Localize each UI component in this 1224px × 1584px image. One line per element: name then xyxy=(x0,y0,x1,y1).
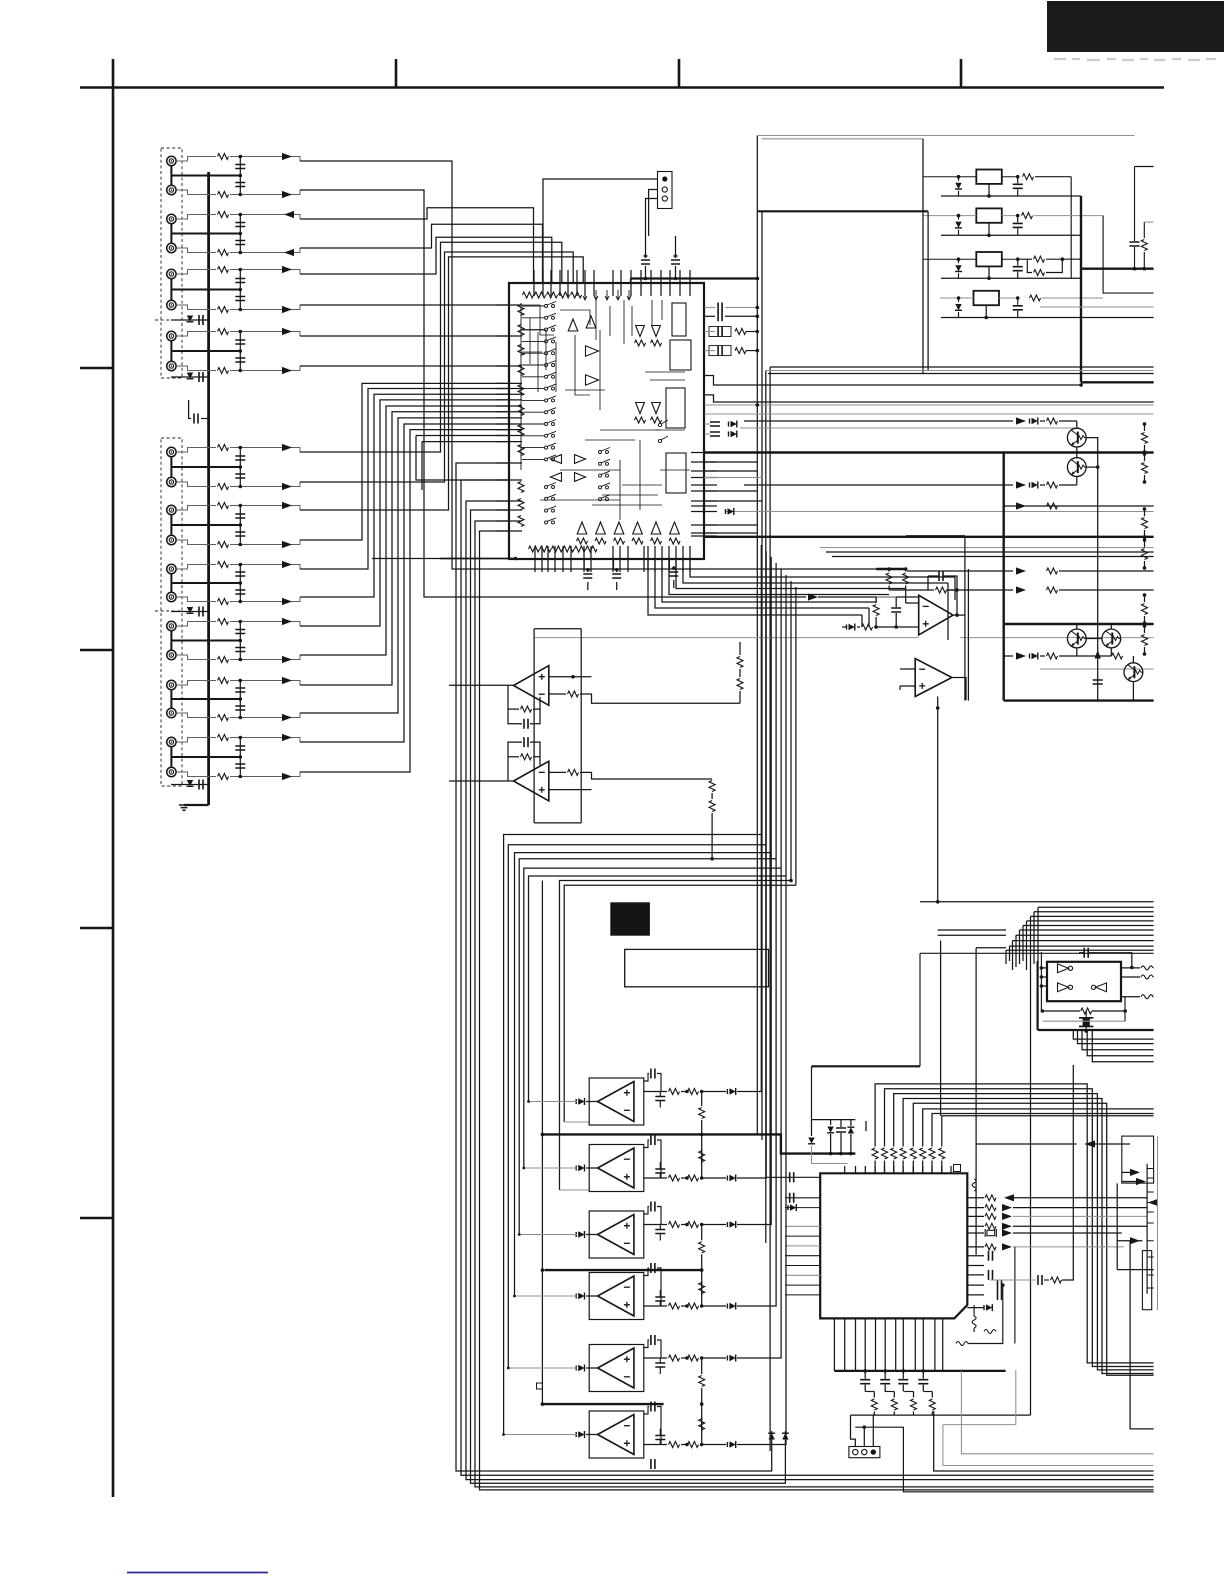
opamp U11 enclosure xyxy=(589,1345,644,1392)
wire xyxy=(543,1134,856,1153)
wire xyxy=(549,693,566,695)
RCA jack J15 xyxy=(167,621,176,630)
U6 right pin 4 xyxy=(967,1225,984,1227)
bus wire V3-1 xyxy=(756,136,758,1135)
capacitor C102 xyxy=(235,183,245,187)
wire U5 out 2 xyxy=(1121,976,1140,978)
transistor Q5 xyxy=(1124,663,1143,682)
loop row 8 xyxy=(564,885,796,1122)
U1 internal buffer amp 4 xyxy=(586,375,599,385)
U1 left pin 7 xyxy=(496,399,522,401)
wire xyxy=(1144,561,1146,568)
capacitor C118 xyxy=(235,706,245,710)
resistor R22 xyxy=(1047,482,1058,488)
U6 top pin 10 xyxy=(931,1166,933,1174)
row y637 right xyxy=(960,637,1154,639)
squiggle h1 xyxy=(984,1330,996,1334)
wire xyxy=(744,420,1013,422)
cap C93 xyxy=(651,1202,655,1212)
wire xyxy=(704,500,762,502)
wire ec3 xyxy=(668,559,670,568)
wire r b xyxy=(913,1412,915,1416)
cap C102 xyxy=(655,1436,665,1440)
wire U8 out to bus xyxy=(737,845,766,1178)
wire xyxy=(704,490,757,492)
resistor R91b xyxy=(688,1089,699,1095)
wire rv a xyxy=(701,1225,703,1241)
wire rv b xyxy=(701,1254,703,1270)
wire row14 to U1 left pin xyxy=(300,394,509,597)
resistor R23 xyxy=(1047,503,1058,509)
stub xyxy=(983,1197,985,1199)
wire xyxy=(1070,177,1072,279)
wire xyxy=(830,1134,832,1154)
regulator U12 xyxy=(976,208,1002,222)
RCA jack J18 xyxy=(167,708,176,717)
wire R13a in xyxy=(1018,258,1032,260)
wire feed U7 xyxy=(529,1101,578,1103)
U1 internal volume ladder box B xyxy=(670,340,691,370)
wire bus to ground xyxy=(184,804,209,806)
wire Q4 e xyxy=(1110,648,1112,656)
resistor R61 under U5 xyxy=(1081,1008,1092,1014)
left ruler tick A xyxy=(80,367,113,369)
wire xyxy=(811,1120,813,1136)
U1 top pin 5 xyxy=(567,270,569,296)
wire xyxy=(900,668,915,670)
wire U2B plus xyxy=(549,789,592,791)
U5 inverter 1 xyxy=(1058,964,1069,973)
wire R72 route xyxy=(885,1089,1154,1367)
wire xyxy=(1012,941,1014,970)
wire reg gnd xyxy=(985,305,987,317)
wire diode a xyxy=(958,177,960,181)
wire xyxy=(1144,530,1146,537)
resistor R118 xyxy=(218,715,229,721)
wire pin c2a xyxy=(705,423,711,425)
wire xyxy=(644,1444,667,1446)
capacitor C117 xyxy=(235,688,245,692)
wire row17 to U1 left pin xyxy=(300,412,509,685)
arrow U6 row 5 xyxy=(1002,1243,1012,1250)
wire fb a3 xyxy=(533,697,540,709)
wire xyxy=(739,669,741,677)
bus wire V3-2 xyxy=(761,211,763,1140)
wire diode b xyxy=(958,312,960,318)
wire fb a4 xyxy=(530,709,540,724)
wire feed 928 xyxy=(927,211,929,370)
U6 left pin 9 xyxy=(785,1274,820,1276)
diode D93 xyxy=(578,1231,584,1237)
U6 right pin 8 xyxy=(967,1265,984,1267)
U6 top pin 2 xyxy=(855,1166,857,1174)
coupling cap branch 6 xyxy=(239,506,241,545)
resistor R109 xyxy=(218,445,229,451)
op-amp selector IC U1 (outline) xyxy=(509,283,704,559)
U6 right cap c4 xyxy=(998,1290,1002,1300)
wire row7 to U1 left pin xyxy=(300,335,509,337)
wire C94 b xyxy=(657,1268,661,1306)
wire xyxy=(541,881,543,1405)
wire U1 bottom row 5 xyxy=(662,559,876,602)
resistor R92a xyxy=(669,1175,680,1181)
capacitor C112 xyxy=(880,1380,890,1384)
wire cap b xyxy=(902,1385,904,1392)
wire R13 loop a xyxy=(1046,259,1062,272)
wire Q1 c xyxy=(1076,421,1078,428)
wire R13 out xyxy=(1062,258,1081,260)
opamp U10 enclosure xyxy=(589,1273,644,1320)
wire xyxy=(820,547,1154,549)
wire r b xyxy=(893,1412,895,1416)
wire U5 out 3 xyxy=(1121,996,1140,998)
wire reg gnd xyxy=(988,184,990,196)
opamp U12 enclosure xyxy=(589,1411,644,1458)
bus clamp diode D202 xyxy=(187,373,193,379)
wire xyxy=(905,586,907,604)
wire D92 to U8 xyxy=(586,1167,598,1169)
U6 right pin 11 xyxy=(967,1294,984,1296)
U1 left pin 12 xyxy=(496,429,522,431)
control bus row 2 xyxy=(1038,906,1154,908)
wire C62 a xyxy=(1085,1011,1087,1018)
wire jack J11 to resistor xyxy=(176,506,216,511)
resistor R36 xyxy=(1142,635,1148,646)
wire xyxy=(1004,623,1154,625)
wire xyxy=(895,597,897,607)
regulator U11 xyxy=(976,170,1002,184)
U1 right pin 4 xyxy=(691,477,717,479)
diode D99 xyxy=(729,1221,735,1227)
coupling cap branch 3 xyxy=(239,270,241,310)
ground bus (thick vertical) xyxy=(207,172,210,805)
U6 orientation notch xyxy=(954,1165,961,1172)
wire cap stub2 xyxy=(659,1290,661,1297)
U1 internal volume ladder box D xyxy=(666,453,686,493)
wire to loop row xyxy=(711,813,713,859)
U1 right pin 6 xyxy=(691,490,717,492)
wire xyxy=(1014,1247,1016,1344)
wire ec1 xyxy=(583,559,585,570)
wire rail xyxy=(941,277,1081,279)
U1 left pin 15 xyxy=(496,462,522,464)
wire xyxy=(1043,1020,1125,1022)
wire row9 to U1 pin xyxy=(300,242,562,452)
wire xyxy=(1124,997,1126,1022)
wire xyxy=(1044,1279,1049,1281)
wire stub xyxy=(739,642,741,648)
wire cap a xyxy=(922,1371,924,1379)
wire resistor R101 to row xyxy=(230,157,300,162)
wire U1 bottom row 6 xyxy=(655,559,869,608)
U6 top pin 1 xyxy=(844,1166,846,1174)
wire Q3 e xyxy=(1076,648,1078,656)
jack pair ground link 8 xyxy=(170,631,172,650)
U6 right pin 12 xyxy=(967,1307,984,1309)
pin diode D2b xyxy=(731,431,737,437)
loop vertical 6 xyxy=(785,575,787,876)
wire xyxy=(644,1177,667,1179)
label frame rectangle xyxy=(625,949,769,986)
U1 pin caps C1b xyxy=(718,311,722,321)
ground link to bus 7 xyxy=(171,582,240,584)
wire U11 out to bus xyxy=(737,868,781,1358)
regulator U14 xyxy=(974,291,1000,305)
wire clamp to bus xyxy=(171,611,209,613)
U6 left pin 6 xyxy=(785,1245,820,1247)
U6 right resistor r3 xyxy=(985,1213,996,1219)
U1 bottom pin 17 xyxy=(675,546,677,572)
U1 pin caps C1a xyxy=(718,303,722,313)
diode D213 xyxy=(955,265,961,271)
wire jack J3 to resistor xyxy=(176,215,216,220)
resistor R34 xyxy=(1142,549,1148,560)
wire Q2 e xyxy=(1076,477,1078,486)
wire xyxy=(534,637,919,639)
wire jack J5 to resistor xyxy=(176,270,216,275)
capacitor C119 xyxy=(235,746,245,750)
RCA jack J5 xyxy=(167,269,176,278)
wire r a xyxy=(913,1392,915,1398)
wire xyxy=(840,1120,842,1127)
wire r a xyxy=(931,1392,933,1398)
opamp U9 xyxy=(598,1215,634,1255)
wire row3 2 xyxy=(1078,1030,1154,1044)
resistor R111 xyxy=(218,503,229,509)
cluster tick xyxy=(865,1121,867,1131)
wire xyxy=(1152,967,1155,969)
resistor R14 xyxy=(1030,295,1041,301)
RCA jack J20 xyxy=(167,767,176,776)
wire xyxy=(920,901,1154,903)
signal arrow row 13 xyxy=(282,561,292,568)
wire xyxy=(1116,1183,1118,1269)
row y373.5 left xyxy=(768,373,923,375)
U6 right pin 7 xyxy=(967,1255,984,1257)
wire xyxy=(851,1414,1031,1416)
wire C91 a xyxy=(644,1074,649,1082)
wire C62 b xyxy=(1085,1026,1087,1031)
resistor R54 xyxy=(568,769,579,775)
resistor R53 xyxy=(568,691,579,697)
diode D23 xyxy=(728,508,734,514)
opamp U9 enclosure xyxy=(589,1211,644,1258)
cap C96b below U12 xyxy=(651,1459,655,1469)
wire rail drop left xyxy=(833,1318,835,1371)
wire Q2 out xyxy=(1086,466,1098,468)
wire resistor R116 to row xyxy=(230,655,300,660)
wire row3 3 xyxy=(1082,1030,1154,1050)
U6 right pin 9 xyxy=(967,1274,984,1276)
diode D22 xyxy=(1032,482,1038,488)
U6 top pin 12 xyxy=(950,1166,952,1174)
resistor R108 xyxy=(699,1419,705,1430)
electrolytic cap C62 xyxy=(1079,1018,1093,1027)
arrow into x976 xyxy=(1085,1140,1095,1147)
U1 left pin 13 xyxy=(496,435,522,437)
capacitor C103 xyxy=(235,223,245,227)
left pin caps C81 xyxy=(790,1172,794,1182)
wire row2 to opamp U4 xyxy=(300,190,806,597)
wire xyxy=(826,551,1154,553)
opamp U11 xyxy=(598,1348,634,1388)
control bus row 8 xyxy=(1016,934,1154,936)
bus wire V3-3 xyxy=(765,371,767,1244)
wire CN1 pin1 to U1 xyxy=(543,179,658,283)
ground link to bus 3 xyxy=(171,289,240,291)
loop vertical 8 xyxy=(795,587,797,885)
wire xyxy=(1059,589,1154,591)
resistor R93b xyxy=(688,1222,699,1228)
wire jack J20 to resistor xyxy=(176,772,216,777)
wire xyxy=(1038,1029,1154,1031)
wire R76 route xyxy=(923,1109,1154,1147)
U6 right diode d1 xyxy=(986,1304,992,1310)
wire resistor R104 to row xyxy=(230,248,300,253)
black reference mark xyxy=(610,902,650,935)
wire jack J6 to resistor xyxy=(176,305,216,310)
wire xyxy=(875,597,877,602)
wire Q5 e xyxy=(1132,682,1134,701)
U1 top pin 7 xyxy=(584,270,586,296)
wire rv a xyxy=(701,1281,703,1306)
wire xyxy=(681,1444,686,1446)
cap C94 xyxy=(651,1263,655,1273)
wire xyxy=(704,451,1154,453)
wire cap a xyxy=(884,1371,886,1379)
wire arrow feed2 xyxy=(976,1143,1076,1145)
signal arrow row 19 xyxy=(282,734,292,741)
resistor R112 xyxy=(218,542,229,548)
wire xyxy=(1022,926,1024,962)
wire jack J12 to resistor xyxy=(176,540,216,545)
wire R73 route xyxy=(894,1094,1154,1370)
bus cap C202 xyxy=(199,372,203,382)
wire xyxy=(533,629,535,823)
resistor R32 xyxy=(1142,463,1148,474)
wire xyxy=(1040,484,1045,486)
wire xyxy=(907,570,1013,572)
arrow into comb xyxy=(1130,1237,1140,1244)
signal arrow row 1 xyxy=(282,153,292,160)
U1 bottom pin 19 xyxy=(689,546,691,572)
arrow drive 2 xyxy=(1016,481,1026,488)
wire xyxy=(1019,930,1021,964)
U1 top pin 12 xyxy=(640,270,642,296)
U1 bottom pin 12 xyxy=(643,546,645,572)
capacitor C120 xyxy=(235,764,245,768)
wire cap stub xyxy=(659,1225,661,1230)
wire xyxy=(946,589,1013,591)
RCA jack J1 xyxy=(167,156,176,165)
wire xyxy=(580,629,582,823)
coupling cap branch 2 xyxy=(239,215,241,253)
wire R12 out xyxy=(1034,215,1103,217)
cap C101 xyxy=(655,1363,665,1367)
stub xyxy=(1102,292,1104,294)
wire U9 out to bus xyxy=(737,853,771,1225)
resistor R114 xyxy=(218,599,229,605)
wire jack J16 to resistor xyxy=(176,655,216,660)
capacitor C113 xyxy=(235,572,245,576)
wire stub a xyxy=(416,436,509,481)
wire xyxy=(938,929,1006,931)
U6 right pin 10 xyxy=(967,1284,984,1286)
wire Ca b xyxy=(1134,247,1136,269)
wire clamp to bus xyxy=(171,319,209,321)
transistor Q3 xyxy=(1067,629,1086,648)
wire resistor R118 to row xyxy=(230,713,300,718)
diode D212 xyxy=(955,222,961,228)
wire xyxy=(868,608,870,627)
jack pair ground link 4 xyxy=(170,341,172,361)
jack pair ground link 1 xyxy=(170,166,172,185)
resistor R56b xyxy=(709,801,715,812)
wire xyxy=(812,1119,856,1121)
wire diode a xyxy=(958,216,960,220)
stub xyxy=(899,686,901,690)
wire row8 to U1 left pin xyxy=(300,365,509,367)
wire cap stub2 xyxy=(659,1162,661,1169)
resistor R105 xyxy=(218,267,229,273)
cap C99 xyxy=(655,1230,665,1234)
wire filter row 1b xyxy=(746,331,757,333)
wire resistor R114 to row xyxy=(230,597,300,602)
wire to Q4 xyxy=(1059,655,1111,657)
RCA jack J7 xyxy=(167,331,176,340)
resistor R108 xyxy=(218,368,229,374)
wire R76 to U6 xyxy=(922,1161,924,1174)
bus clamp diode D203 xyxy=(187,607,193,613)
wire resistor R108 to row xyxy=(230,366,300,371)
diode D201b xyxy=(782,1433,788,1439)
wire CN1 pin3 xyxy=(646,199,658,237)
top ruler tick 1 xyxy=(395,59,398,88)
resistor R101 xyxy=(218,154,229,160)
loop vertical 3 xyxy=(770,557,772,853)
wire cap a xyxy=(1017,177,1019,184)
U1 top pin 17 xyxy=(689,270,691,296)
wire xyxy=(644,1357,667,1359)
wire xyxy=(900,685,915,687)
U6 right resistor r4 xyxy=(985,1223,996,1229)
U6 left pin 11 xyxy=(785,1294,820,1296)
resistor R95b xyxy=(688,1355,699,1361)
wire ec1b xyxy=(587,582,589,590)
capacitor C116 xyxy=(235,648,245,652)
resistor R119 xyxy=(218,735,229,741)
U1 left pin 10 xyxy=(496,417,522,419)
wire xyxy=(725,511,1154,513)
wire xyxy=(1144,595,1146,602)
wire xyxy=(700,1224,726,1226)
wire thick y269 xyxy=(1081,268,1154,270)
wire xyxy=(1009,946,1011,961)
U6 inductor top right xyxy=(972,1179,976,1191)
wire row16 to U1 left pin xyxy=(300,406,509,655)
U1 left pin 2 xyxy=(496,335,522,337)
wire U2A tip input xyxy=(449,684,514,686)
wire resistor R102 to row xyxy=(230,190,300,195)
wire U1 bottom row 4 xyxy=(669,559,889,595)
diode D94 xyxy=(578,1293,584,1299)
wire Q5 c xyxy=(1132,656,1134,663)
wire xyxy=(1026,921,1028,970)
arrow right block 1 xyxy=(1130,1169,1140,1176)
stub xyxy=(928,258,930,260)
wire arrow comb feed xyxy=(1117,1240,1142,1242)
wire row18 to U1 left pin xyxy=(300,418,509,713)
